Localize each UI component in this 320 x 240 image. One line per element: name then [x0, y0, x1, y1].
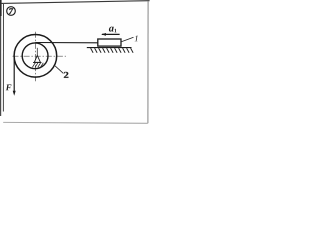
block label 1: [135, 35, 138, 41]
force label F: [6, 84, 12, 90]
block 1: [98, 39, 121, 46]
problem number 7: [9, 8, 13, 14]
wheel label 2: [64, 72, 68, 78]
acceleration label a: [109, 27, 114, 32]
axle support hatching: [32, 63, 43, 68]
leader line to label 2: [55, 66, 63, 74]
frame top border: [1, 1, 150, 4]
force F cord line: [13, 56, 15, 92]
ground hatching: [91, 48, 134, 53]
axle support triangle A: [34, 56, 40, 63]
force F arrowhead: [13, 91, 16, 96]
leader line to label 1: [121, 37, 133, 42]
axle support base line: [33, 62, 42, 64]
centerline horizontal: [13, 55, 67, 57]
frame right border: [147, 1, 149, 123]
cord from inner drum to block: [35, 42, 98, 44]
acceleration subscript 1: [114, 29, 116, 33]
ground surface line: [87, 47, 132, 49]
axle pin centerline stroke: [36, 48, 38, 56]
frame left border: [2, 3, 4, 112]
frame bottom border: [3, 121, 148, 124]
acceleration arrowhead: [101, 33, 106, 36]
pulley inner drum: [22, 43, 48, 69]
centerline vertical: [35, 32, 37, 82]
pulley outer wheel: [14, 35, 57, 78]
page left edge strip: [0, 0, 1, 116]
acceleration arrow line: [102, 33, 120, 35]
problem number circle: [7, 7, 16, 16]
